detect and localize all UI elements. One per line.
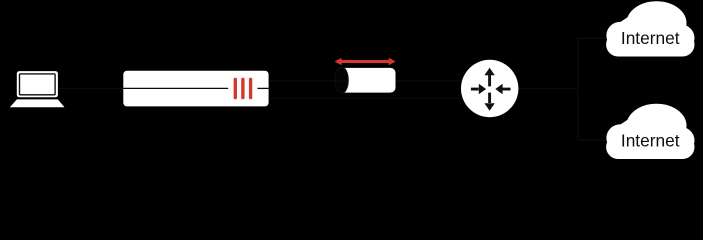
top internet cloud — [606, 1, 694, 56]
wire lower link firewall to router — [269, 97, 463, 99]
red double arrow over tunnel — [335, 58, 396, 66]
wire upper link tunnel to router — [396, 80, 464, 82]
wire firewall segment right of bars — [257, 87, 268, 89]
bracket vertical wire — [577, 38, 579, 140]
laptop PC — [10, 71, 65, 107]
wire router to bracket — [519, 88, 578, 90]
router R1 — [461, 60, 518, 117]
wire laptop to firewall (continues inside firewall) — [56, 87, 228, 89]
firewall red bar 1 — [234, 78, 237, 100]
tunnel cylinder left cap — [335, 67, 348, 93]
firewall red bar 3 — [249, 78, 252, 100]
wire bracket to bottom cloud — [578, 139, 612, 141]
bottom internet cloud — [606, 104, 694, 159]
wire upper link firewall to tunnel — [269, 80, 348, 82]
tunnel cylinder body — [342, 68, 396, 93]
firewall FW body — [123, 71, 268, 107]
firewall red bar 2 — [241, 78, 244, 100]
wire bracket to top cloud — [578, 37, 612, 39]
svg-text:Internet: Internet — [621, 28, 680, 48]
